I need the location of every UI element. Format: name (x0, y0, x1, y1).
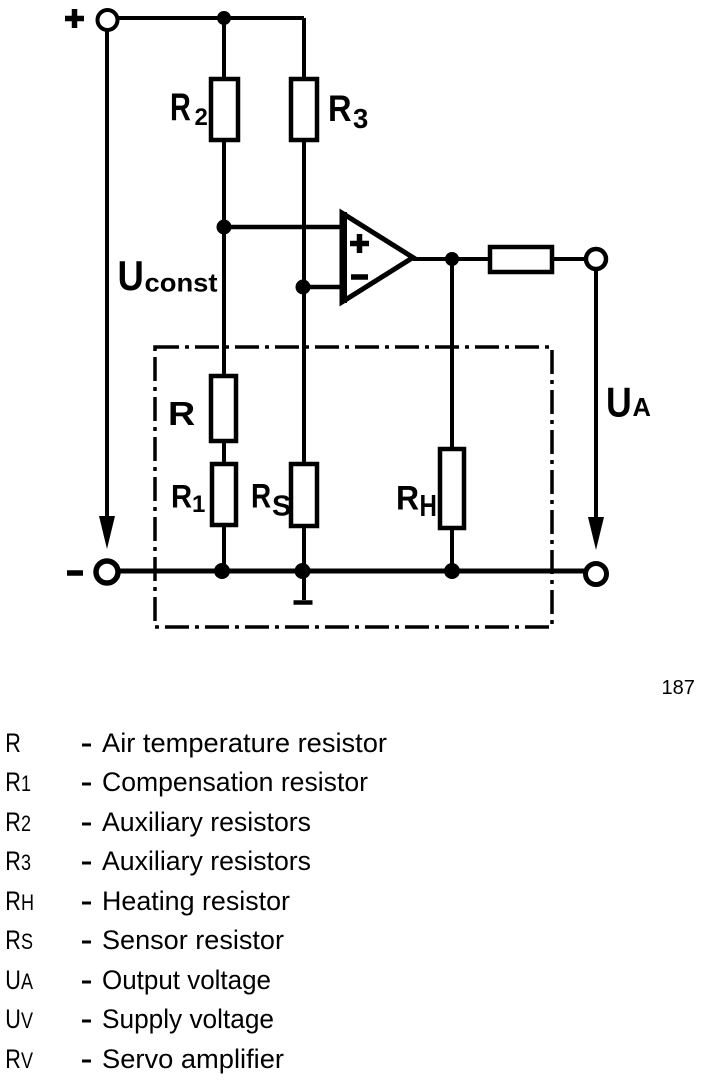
svg-text:R: R (328, 88, 352, 129)
svg-text:R: R (171, 478, 192, 515)
svg-text:3: 3 (21, 851, 31, 875)
svg-text:R: R (396, 479, 419, 517)
svg-text:R: R (5, 926, 21, 956)
svg-text:R: R (5, 729, 21, 759)
svg-text:H: H (420, 488, 437, 522)
svg-text:U: U (118, 253, 144, 300)
svg-text:R: R (5, 808, 21, 838)
svg-text:Heating resistor: Heating resistor (102, 886, 290, 916)
svg-text:V: V (21, 1009, 34, 1033)
svg-text:1: 1 (21, 772, 31, 796)
svg-text:V: V (21, 1049, 34, 1073)
svg-text:Compensation resistor: Compensation resistor (102, 767, 368, 797)
svg-text:R: R (168, 396, 195, 432)
svg-text:3: 3 (353, 103, 368, 134)
svg-text:R: R (5, 768, 21, 798)
svg-text:R: R (5, 1045, 21, 1075)
svg-text:S: S (272, 491, 291, 523)
svg-text:2: 2 (21, 812, 31, 836)
svg-text:187: 187 (662, 677, 695, 699)
svg-text:S: S (21, 930, 33, 954)
svg-text:2: 2 (195, 104, 208, 131)
svg-text:Auxiliary resistors: Auxiliary resistors (102, 807, 311, 837)
svg-text:Air temperature resistor: Air temperature resistor (102, 728, 387, 758)
svg-text:R: R (5, 847, 21, 877)
svg-text:Supply voltage: Supply voltage (102, 1004, 274, 1034)
svg-text:Sensor resistor: Sensor resistor (102, 925, 284, 955)
svg-text:H: H (21, 891, 34, 915)
svg-text:Servo amplifier: Servo amplifier (102, 1044, 284, 1074)
svg-text:R: R (170, 86, 191, 129)
svg-text:R: R (5, 887, 21, 917)
svg-text:const: const (145, 268, 218, 298)
svg-text:1: 1 (192, 491, 205, 518)
svg-text:U: U (606, 380, 632, 426)
svg-text:R: R (251, 477, 271, 515)
svg-text:A: A (633, 394, 651, 422)
svg-text:Output voltage: Output voltage (102, 965, 271, 995)
svg-text:Auxiliary resistors: Auxiliary resistors (102, 846, 311, 876)
svg-text:U: U (5, 966, 21, 996)
svg-text:U: U (5, 1005, 21, 1035)
svg-text:A: A (21, 970, 34, 994)
